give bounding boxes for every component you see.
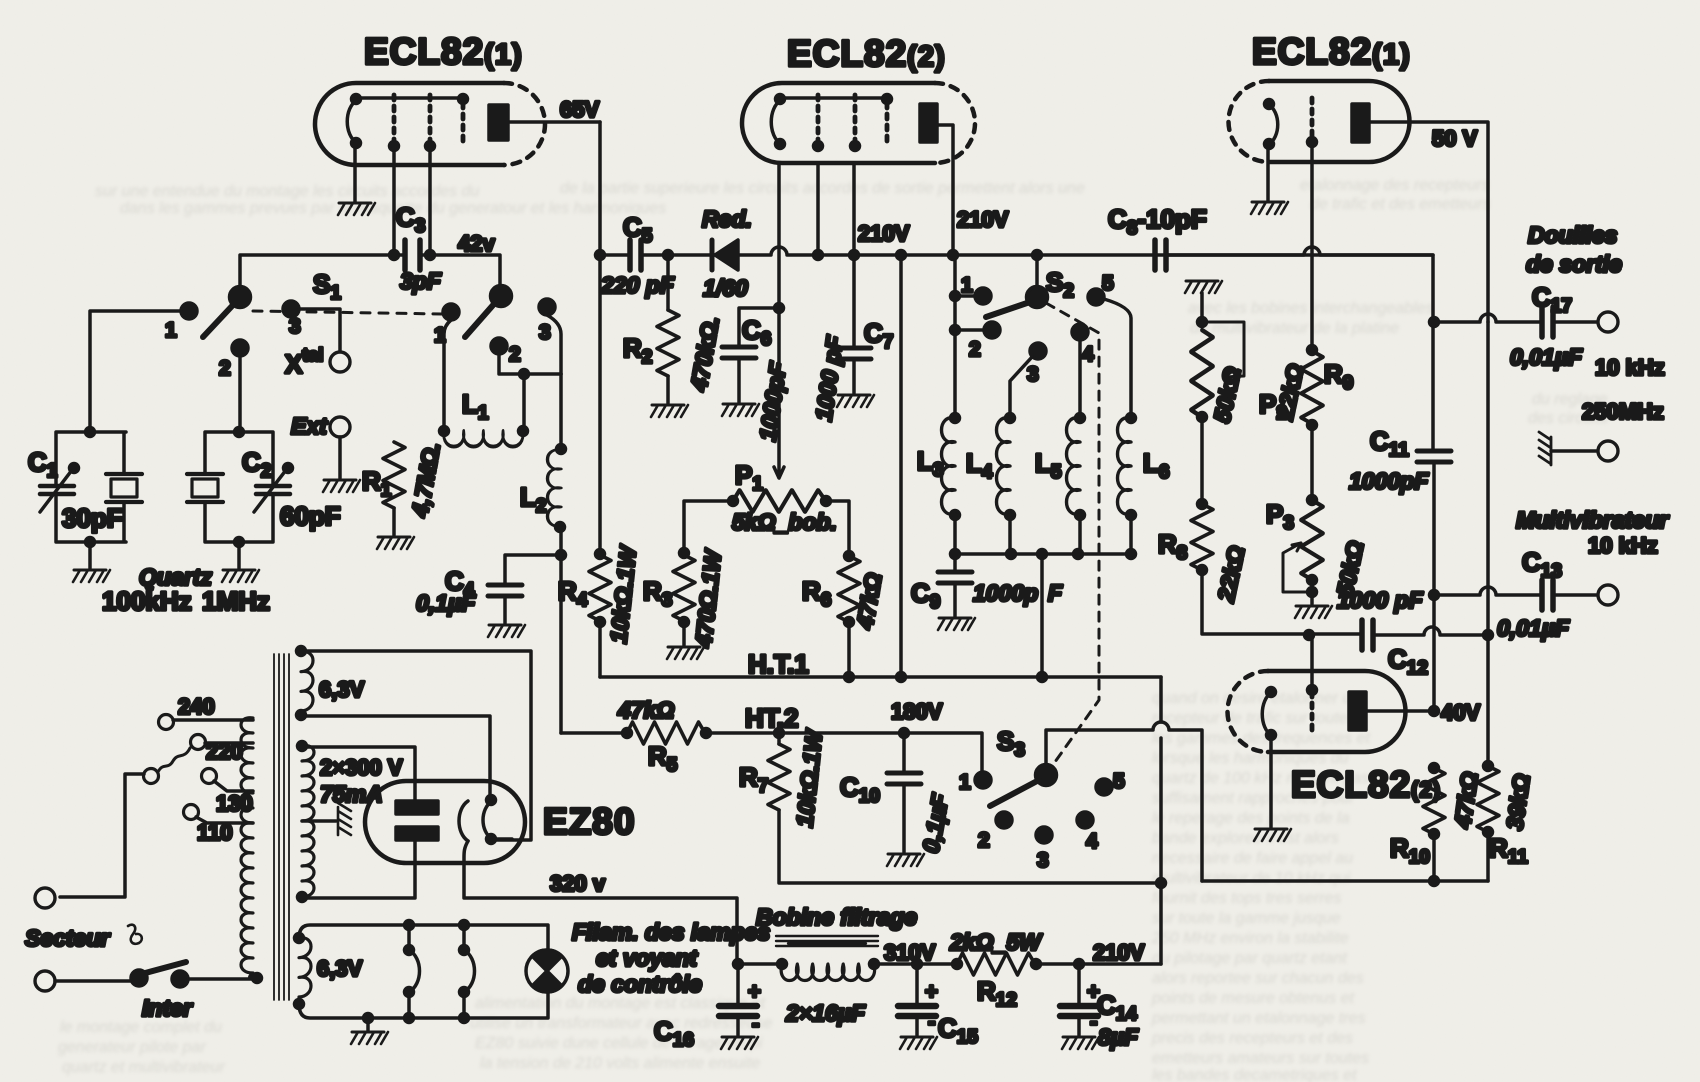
svg-text:le reperage des points de la: le reperage des points de la	[1152, 810, 1350, 827]
resistor R9	[1301, 346, 1323, 430]
svg-text:250 MHz environ la stabilite: 250 MHz environ la stabilite	[1151, 930, 1349, 947]
wire EZ80 heater bottom jog	[491, 837, 512, 841]
wire S1B contact2 to node row	[499, 354, 561, 374]
heater symbol 1	[405, 921, 420, 1023]
svg-text:-: -	[752, 1011, 759, 1036]
resistor R1	[383, 442, 405, 508]
label R6	[802, 576, 831, 611]
ground R3	[667, 647, 704, 659]
svg-text:permettant un etalonnage tres: permettant un etalonnage tres	[1151, 1010, 1365, 1027]
svg-text:1000 pF: 1000 pF	[1337, 587, 1424, 613]
svg-text:10 kHz: 10 kHz	[1588, 533, 1658, 558]
svg-text:100kHz: 100kHz	[102, 586, 192, 616]
junction V4 grid node	[1305, 631, 1314, 640]
svg-text:Filam. des lampes: Filam. des lampes	[572, 919, 770, 945]
switch S2 rotor	[1027, 255, 1048, 308]
tube V4 envelope	[1228, 671, 1406, 752]
svg-text:130: 130	[216, 791, 253, 816]
svg-text:C8-10pF: C8-10pF	[1108, 204, 1207, 239]
secondary 2x300V winding	[298, 742, 315, 902]
block C2 trimmer + crystal 2 frame	[205, 432, 273, 542]
net label 50V	[1432, 126, 1478, 151]
svg-text:le montage complet du: le montage complet du	[60, 1019, 222, 1036]
switch S2 contact 3	[1027, 343, 1046, 386]
tube V4 anode plate	[1349, 692, 1366, 730]
wire S1A contact2 to C2 top	[238, 357, 242, 432]
svg-text:bande exploree il est alors: bande exploree il est alors	[1152, 830, 1339, 847]
svg-text:1000p: 1000p	[973, 580, 1038, 606]
wire EZ80 top anode to 300V top	[302, 747, 415, 801]
wire S2 c3 to L4	[1010, 357, 1032, 418]
resistor R7	[768, 733, 790, 810]
value 470kohm	[685, 314, 724, 394]
wire S1 rotor-A riser to C3 left	[240, 255, 404, 287]
resistor R12	[953, 953, 1041, 975]
wire R8 down to C12 line	[1202, 570, 1360, 634]
wire S1B contact3 to node row	[547, 315, 561, 374]
value 47kohm R6	[851, 571, 887, 632]
net label 40V	[1441, 700, 1480, 725]
label C7	[864, 318, 893, 353]
tube V3 grid	[1308, 98, 1317, 147]
svg-text:Bobine filtrage: Bobine filtrage	[756, 904, 917, 930]
switch S1 wafer B lever	[465, 304, 494, 337]
wire HT feed drop x=901	[899, 255, 903, 677]
capacitor C8	[1155, 240, 1166, 270]
net label 310V	[884, 940, 936, 965]
junction R6 top	[845, 552, 854, 561]
svg-text:2kΩ_5W: 2kΩ_5W	[949, 929, 1043, 955]
tube V2 grid g1	[814, 95, 823, 151]
capacitor C9	[938, 554, 972, 616]
tube V3 label ECL82(1)	[1252, 31, 1411, 72]
label C17	[1532, 282, 1572, 317]
wire C6 bracket	[739, 308, 779, 345]
choke bobine filtrage	[740, 960, 879, 981]
wire S3 rotor riser and link to right drop	[1046, 722, 1202, 881]
capacitor C10	[887, 733, 921, 852]
svg-text:0,1µF: 0,1µF	[416, 590, 476, 616]
svg-text:6,3V: 6,3V	[319, 677, 365, 702]
wire S1A contact3 to crystal jack	[299, 309, 340, 351]
junction R2 tap	[664, 251, 673, 260]
label C6	[742, 315, 771, 350]
svg-text:points de mesure obtenus et: points de mesure obtenus et	[1151, 990, 1354, 1007]
svg-text:EZ80 suivie dune cellule de fi: EZ80 suivie dune cellule de filtrage en …	[475, 1035, 763, 1052]
wiper P2 bracket	[1198, 318, 1245, 381]
label Multivibrateur 10kHz	[1516, 507, 1669, 558]
wire EZ80 cathode to 320V line	[464, 841, 737, 962]
lamp voyant	[526, 950, 568, 992]
svg-text:de la partie superieure les ci: de la partie superieure les circuits acc…	[560, 180, 1085, 197]
junction C10 top	[900, 729, 909, 738]
wire V4 cathode to ground	[1269, 735, 1273, 827]
svg-text:5kΩ_bob.: 5kΩ_bob.	[732, 509, 837, 535]
wire C17 to output jack	[1553, 320, 1597, 324]
svg-text:1/60: 1/60	[703, 275, 748, 301]
terminal secteur top	[35, 888, 55, 908]
bus bottom right	[1202, 877, 1488, 886]
svg-text:les gammes des frequences et: les gammes des frequences et	[1152, 730, 1370, 747]
label R1	[362, 466, 392, 501]
svg-text:de contrôle: de contrôle	[578, 971, 702, 997]
wire S1A contact1 to C1 top	[90, 311, 181, 432]
junction C3-left / g1 node	[390, 251, 399, 260]
switch Inter pole	[131, 962, 186, 986]
tube V4 cathode	[1262, 688, 1275, 740]
svg-text:2×16µF: 2×16µF	[785, 1000, 866, 1026]
svg-text:210V: 210V	[1093, 940, 1145, 965]
label L4	[966, 448, 993, 483]
junction 40V anode node	[1430, 707, 1439, 716]
heater symbol 2	[460, 921, 475, 1023]
value 4,7Mohm	[406, 440, 445, 520]
resistor R4	[589, 550, 611, 627]
ground C15	[900, 1037, 937, 1049]
label L1	[462, 389, 489, 424]
wire P3 to ground	[1310, 580, 1314, 604]
ground V1 cathode	[338, 203, 375, 215]
svg-text:sur toute la gamme jusque: sur toute la gamme jusque	[1152, 910, 1341, 927]
wire L1 right riser	[522, 374, 526, 431]
svg-text:et voyant: et voyant	[596, 945, 698, 971]
wire ground to jack 2	[1551, 449, 1597, 453]
wire Ext jack to ground	[338, 437, 342, 478]
tube V4 grid	[1308, 686, 1317, 733]
value 1000pF C11	[1349, 468, 1429, 494]
label C1	[28, 447, 58, 482]
crystal quartz 2	[187, 474, 223, 502]
wire V2 cathode lead down to C6 node and P1 wiper	[774, 163, 784, 478]
label P2	[1259, 389, 1287, 424]
switch S2 lever	[986, 302, 1030, 317]
bus H.T.1	[600, 675, 1161, 679]
svg-text:3: 3	[1037, 849, 1049, 872]
svg-text:du pilotage par quartz etant: du pilotage par quartz etant	[1152, 950, 1347, 967]
ground C6	[722, 404, 759, 416]
terminal output jack 2	[1598, 441, 1618, 461]
svg-text:10 kHz: 10 kHz	[1595, 355, 1665, 380]
svg-text:Multivibrateur: Multivibrateur	[1516, 507, 1669, 533]
label C10	[840, 772, 880, 807]
value 2kohm-5W	[949, 929, 1043, 955]
svg-text:1: 1	[165, 319, 177, 342]
tube V1 envelope	[315, 83, 545, 165]
wire C2 bottom to ground	[237, 542, 241, 568]
svg-text:Douilles: Douilles	[1528, 222, 1617, 248]
label C11	[1370, 426, 1409, 461]
tube V2 label ECL82(2)	[787, 33, 946, 74]
ground R2	[651, 405, 688, 417]
svg-text:multivibrateur de 10 kHz qui: multivibrateur de 10 kHz qui	[1152, 870, 1351, 887]
label Inter	[142, 995, 193, 1021]
ground C9	[938, 618, 975, 630]
wire L2 bottom down to HT2	[559, 527, 563, 733]
bus HT2 from L2 node	[561, 731, 627, 735]
svg-text:de sortie: de sortie	[1526, 251, 1622, 277]
capacitor C16	[719, 964, 761, 1036]
svg-text:5: 5	[1113, 770, 1125, 793]
wire P2 top from ground	[1200, 293, 1204, 322]
switch S3 contact 2	[978, 812, 1012, 852]
wire V3 grid lead down to R9	[1310, 142, 1314, 350]
wire C7 to ground	[852, 360, 856, 393]
wire V2 g1 lead down	[816, 163, 820, 255]
label C12	[1388, 644, 1428, 679]
svg-text:3: 3	[1027, 363, 1039, 386]
svg-text:+: +	[748, 979, 761, 1004]
wire V3 anode 50V to right bus	[1369, 122, 1488, 322]
junction C2 bottom	[235, 538, 244, 547]
capacitor C13	[1542, 580, 1553, 610]
label C2	[242, 447, 271, 482]
net label 180V	[891, 699, 943, 724]
selector link wavy	[144, 748, 191, 784]
svg-text:220: 220	[206, 739, 243, 764]
ground C14	[1062, 1037, 1099, 1049]
switch S1 label	[313, 269, 341, 304]
value 50kohm P3	[1331, 538, 1368, 599]
label Secteur	[25, 925, 142, 951]
junction V2 g1 node	[814, 251, 823, 260]
label C5	[623, 212, 653, 247]
wire 6.3V top lead to EZ80 heater right	[301, 651, 531, 840]
svg-text:65V: 65V	[560, 97, 599, 122]
inductor L2	[548, 374, 566, 532]
tube V3 envelope	[1229, 81, 1410, 162]
svg-text:3pF: 3pF	[400, 268, 442, 294]
switch S2 contact 1	[951, 274, 992, 304]
label C9	[911, 578, 940, 613]
tap 130	[202, 769, 254, 817]
terminal Ext jack	[330, 417, 350, 437]
EZ80 anode plates	[396, 801, 438, 840]
wire C12 to 50V bus with hop	[1373, 627, 1488, 635]
resistor R6	[838, 556, 860, 627]
terminal output jack 3	[1598, 585, 1618, 605]
junction C13 feed	[1430, 591, 1439, 600]
junction 65V corner	[596, 251, 605, 260]
wire HT1 corner drop x=1161	[1159, 677, 1163, 964]
switch S3 contact 1	[959, 771, 991, 794]
inductor L4	[997, 414, 1015, 555]
transformer primary winding	[241, 718, 262, 983]
capacitor C7	[837, 348, 871, 359]
junction S2 rotor node	[1033, 251, 1042, 260]
label Xtal	[285, 345, 323, 379]
wire C6 to ground	[737, 359, 741, 402]
switch Inter throw	[172, 971, 188, 987]
potentiometer P2	[1191, 330, 1213, 422]
junction V2 anode node	[949, 251, 958, 260]
wire R1 to ground	[392, 508, 396, 535]
label L5	[1035, 448, 1062, 483]
wire P1 left to R3	[684, 501, 733, 552]
label R2	[623, 333, 652, 368]
wire 50V bus down through C12 node to R11	[1486, 322, 1490, 766]
svg-text:quartz et multivibrateur: quartz et multivibrateur	[62, 1059, 225, 1076]
junction C12 at 50V bus	[1484, 631, 1493, 640]
switch S1 wafer B contact 1	[434, 304, 459, 347]
label L3	[917, 446, 943, 481]
svg-text:310V: 310V	[884, 940, 936, 965]
label L6	[1143, 448, 1169, 483]
ground V4 cathode	[1254, 829, 1291, 841]
value 3pF	[400, 268, 442, 294]
wire V1 cathode to ground	[353, 143, 357, 202]
tube V1 grid g3	[461, 103, 466, 147]
capacitor C11	[1417, 451, 1451, 462]
wire diode to 255 line with hop over cathode lead	[738, 247, 1433, 255]
tube V1 cathode	[347, 95, 360, 148]
wire S1B contact1 down to L1 left	[444, 320, 451, 431]
switch S2 contact 4	[1072, 324, 1094, 366]
svg-text:precis des recepteurs et des: precis des recepteurs et des	[1151, 1030, 1353, 1047]
switch S1 ganging dashed link	[253, 311, 443, 314]
svg-text:6,3V: 6,3V	[317, 956, 363, 981]
tube V1 internal top wire	[356, 95, 468, 104]
switch S3 contact 3	[1036, 827, 1052, 872]
svg-text:etalonnage des recepteurs: etalonnage des recepteurs	[1300, 177, 1489, 194]
wire S2 c5 to L6	[1104, 299, 1131, 418]
label Ext	[291, 413, 328, 439]
terminal secteur bottom	[35, 971, 55, 991]
switch S1 wafer A contact 1	[165, 303, 197, 342]
wire Inter to primary bottom	[188, 977, 257, 981]
junction C14 node	[1075, 960, 1084, 969]
secondary 6.3V bottom winding	[295, 938, 312, 1009]
switch S2 contact 2	[951, 322, 1001, 361]
value 39kohm R11	[1501, 772, 1535, 831]
capacitor C14	[1060, 964, 1100, 1035]
svg-text:320 v: 320 v	[550, 871, 606, 896]
value 1000pF C6	[754, 360, 791, 443]
svg-text:quand on desire etalonner un: quand on desire etalonner un	[1152, 690, 1360, 707]
svg-text:les bandes decametriques et: les bandes decametriques et	[1152, 1067, 1357, 1082]
EZ80 heater arc	[483, 796, 496, 844]
EZ80 cathode arc	[459, 801, 468, 841]
value 22kohm R8	[1212, 543, 1249, 605]
value 5kohm bob	[732, 509, 837, 535]
inductor L3	[942, 414, 960, 555]
label 6,3V bottom	[317, 956, 363, 981]
junction x901 HT1	[897, 673, 906, 682]
svg-text:110: 110	[197, 820, 233, 845]
svg-text:recepteur de trafic sur toutes: recepteur de trafic sur toutes	[1152, 710, 1356, 727]
tube V4 label ECL82(2)	[1291, 764, 1441, 805]
ground Ext	[323, 480, 360, 492]
junction C1 bottom	[86, 538, 95, 547]
filament box top rail	[295, 925, 549, 950]
junction C2 top	[235, 428, 244, 437]
label C14	[1097, 990, 1137, 1025]
tube V2 internal top wire	[780, 95, 892, 104]
capacitor C2 variable plates	[254, 464, 293, 513]
net label 320v	[550, 871, 606, 896]
svg-text:3: 3	[539, 321, 551, 344]
value 8uF	[1098, 1024, 1139, 1050]
transformer core	[274, 654, 289, 1000]
choke core bars	[776, 936, 878, 946]
ground C16	[721, 1037, 758, 1049]
label R8	[1158, 529, 1187, 564]
junction C6 node	[775, 304, 784, 313]
wire C3 right to 42V corner	[421, 255, 500, 287]
wire R10 to bottom bus	[1432, 834, 1436, 881]
potentiometer P3	[1301, 496, 1323, 585]
svg-text:240: 240	[178, 694, 215, 719]
svg-text:42v: 42v	[458, 231, 495, 256]
svg-text:1000pF: 1000pF	[1349, 468, 1429, 494]
svg-text:F: F	[1048, 580, 1063, 606]
wire R6 to HT1	[847, 621, 851, 677]
wire C8 node to C11 bus x=1434	[1166, 255, 1434, 711]
label Bobine filtrage	[756, 904, 917, 930]
value 30pF	[62, 503, 123, 533]
switch S3 lever	[990, 780, 1039, 806]
svg-text:fournit des tops tres serres: fournit des tops tres serres	[1152, 890, 1341, 907]
label C8-10pF	[1108, 204, 1207, 239]
wire C13 to output jack	[1553, 593, 1597, 597]
tap 240	[159, 694, 254, 730]
wire P2 to R8	[1200, 417, 1204, 504]
value 470ohm-1W	[690, 547, 726, 650]
wire C13 line with hop over 50V bus	[1434, 587, 1540, 595]
svg-text:la tension de 210 volts alimen: la tension de 210 volts alimente ensuite	[480, 1055, 760, 1072]
wire R12 to 210V corner	[1036, 962, 1161, 966]
value 1000pF C12	[1337, 587, 1424, 613]
wire C4 bracket	[505, 555, 561, 583]
label Quartz	[139, 564, 212, 590]
switch S3 contact 4	[1077, 812, 1098, 853]
wire selector to secteur	[60, 774, 144, 897]
label R4	[558, 576, 588, 611]
junction bottom bus left	[1157, 879, 1166, 888]
junction C16 node	[734, 960, 743, 969]
svg-text:necessaire de faire appel au: necessaire de faire appel au	[1152, 850, 1353, 867]
tube V2 envelope	[742, 83, 975, 163]
label P3	[1266, 499, 1294, 534]
label 6,3V top	[319, 677, 365, 702]
wire 6.3V bottom lead to EZ80 heater left	[301, 716, 490, 797]
bus coil bottoms	[951, 550, 1136, 559]
label EZ80	[543, 801, 635, 842]
wire choke to R12	[874, 962, 957, 966]
wire C5 to diode	[641, 253, 712, 257]
junction R7 top	[775, 729, 784, 738]
switch S2 label	[1046, 267, 1074, 302]
switch S1 wafer A lever	[203, 305, 233, 337]
svg-text:60pF: 60pF	[280, 501, 341, 531]
svg-text:0,01µF: 0,01µF	[1510, 344, 1583, 370]
value 47kohm R10	[1449, 770, 1483, 830]
label R7	[739, 762, 768, 797]
switch S3 rotor	[1036, 765, 1057, 786]
switch S1 wafer A rotor	[230, 287, 251, 308]
wire 65V vertical bus x=600	[598, 122, 602, 677]
switch S2 ganging dashed	[1046, 303, 1099, 769]
svg-text:EZ80: EZ80	[543, 801, 635, 842]
filament box bottom rail	[299, 992, 548, 1018]
junction C17 feed	[1430, 318, 1439, 327]
wire V2 anode out to 210V drop	[937, 125, 953, 255]
svg-text:2: 2	[509, 343, 521, 366]
terminal output jack 1	[1598, 312, 1618, 332]
value 1MHz	[202, 586, 270, 616]
resistor R11	[1477, 762, 1499, 837]
capacitor C3	[405, 240, 420, 270]
svg-text:3: 3	[289, 315, 301, 338]
